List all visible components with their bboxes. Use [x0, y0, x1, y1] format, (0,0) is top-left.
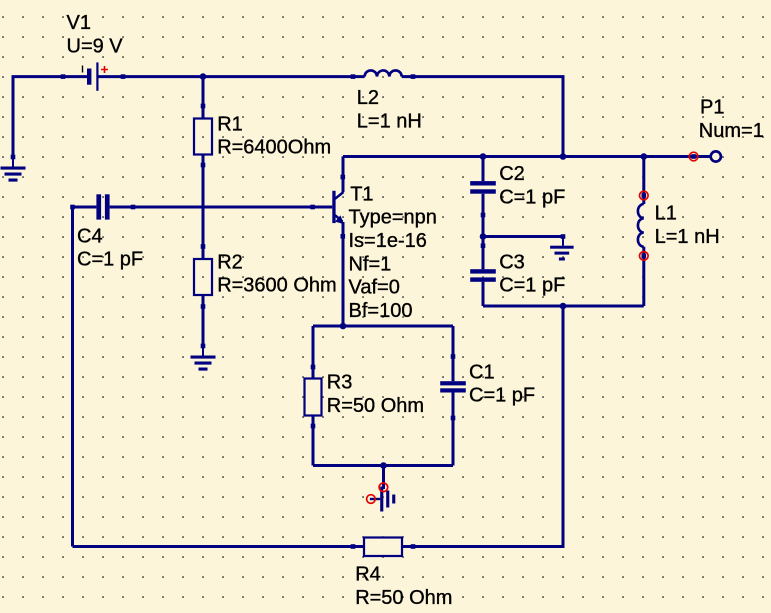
svg-text:C=1 pF: C=1 pF	[499, 275, 565, 297]
svg-text:Type=npn: Type=npn	[349, 207, 437, 229]
svg-text:Is=1e-16: Is=1e-16	[349, 230, 427, 252]
svg-text:Nf=1: Nf=1	[349, 253, 392, 275]
svg-text:Vaf=0: Vaf=0	[349, 277, 400, 299]
svg-text:R3: R3	[327, 372, 353, 394]
svg-text:C1: C1	[469, 361, 495, 383]
svg-text:C=1 pF: C=1 pF	[499, 187, 565, 209]
svg-text:C3: C3	[499, 251, 525, 273]
svg-text:L1: L1	[655, 203, 677, 225]
svg-text:Bf=100: Bf=100	[349, 300, 413, 322]
svg-text:C=1 pF: C=1 pF	[77, 249, 143, 271]
svg-text:U=9 V: U=9 V	[67, 36, 124, 58]
svg-text:R=6400Ohm: R=6400Ohm	[217, 137, 331, 159]
svg-text:R=50 Ohm: R=50 Ohm	[327, 395, 424, 417]
svg-text:L=1 nH: L=1 nH	[655, 226, 720, 248]
svg-text:R=3600 Ohm: R=3600 Ohm	[217, 275, 337, 297]
svg-text:P1: P1	[700, 97, 724, 119]
svg-text:T1: T1	[350, 183, 373, 205]
svg-text:C=1 pF: C=1 pF	[469, 385, 535, 407]
svg-text:R2: R2	[217, 251, 243, 273]
svg-text:Num=1: Num=1	[699, 120, 764, 142]
svg-text:L2: L2	[357, 87, 379, 109]
svg-text:R1: R1	[217, 113, 243, 135]
svg-text:V1: V1	[67, 12, 91, 34]
svg-text:R4: R4	[355, 564, 381, 586]
svg-text:R=50 Ohm: R=50 Ohm	[355, 587, 452, 609]
svg-text:L=1 nH: L=1 nH	[357, 111, 422, 133]
svg-text:C4: C4	[77, 225, 103, 247]
svg-text:C2: C2	[499, 163, 525, 185]
